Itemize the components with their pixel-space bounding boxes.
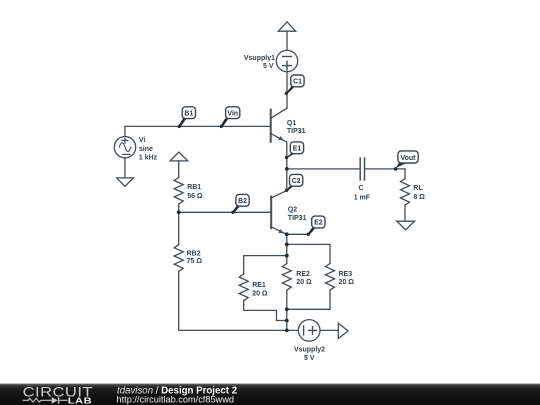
voltage source Vsupply1 [276, 50, 297, 108]
svg-text:8 Ω: 8 Ω [413, 194, 425, 201]
wire (RB2 down and right to bottom rail) [179, 271, 299, 330]
svg-text:Q2: Q2 [288, 207, 297, 214]
power flag (above Vsupply1) [278, 22, 295, 51]
node B2 wedge [231, 206, 240, 213]
node E2 [312, 216, 325, 228]
resistor RB2 [174, 245, 183, 272]
svg-text:C: C [358, 185, 363, 192]
voltage source Vsupply2 [298, 320, 338, 342]
footer text [117, 385, 238, 404]
node Vin wedge [220, 118, 229, 127]
voltage source Vi [114, 126, 135, 177]
node B2 [236, 194, 249, 206]
svg-text:C1: C1 [293, 79, 302, 86]
node E1 [290, 142, 303, 154]
transistor Q1 [271, 108, 287, 169]
svg-text:B2: B2 [238, 198, 247, 205]
footer bar [0, 384, 540, 405]
svg-text:56 Ω: 56 Ω [187, 193, 203, 200]
node C1 wedge [285, 87, 295, 95]
svg-text:LAB: LAB [68, 396, 93, 405]
node E1 wedge [285, 154, 294, 159]
transistor Q2 [271, 169, 287, 234]
power flag (right of Vsupply2) [338, 323, 348, 338]
svg-text:RB2: RB2 [187, 251, 201, 258]
node Vin [226, 107, 240, 119]
svg-text:RE3: RE3 [339, 271, 353, 278]
svg-text:Vout: Vout [400, 155, 416, 162]
wire (RB1 to junction) [178, 204, 180, 212]
node label wedges [178, 87, 408, 237]
svg-text:1 mF: 1 mF [354, 195, 371, 202]
svg-text:E1: E1 [293, 145, 302, 152]
svg-text:RE1: RE1 [252, 282, 266, 289]
svg-text:sine: sine [139, 146, 153, 153]
node E2 wedge [307, 228, 316, 235]
power flag (above RB1) [170, 152, 188, 177]
ground (below Vi) [117, 178, 134, 186]
svg-text:1 kHz: 1 kHz [139, 155, 158, 162]
node B1 wedge [178, 118, 187, 127]
svg-text:Vsupply1: Vsupply1 [244, 55, 275, 62]
node C2 [290, 174, 303, 186]
svg-text:RL: RL [413, 185, 423, 192]
resistor RE2 [282, 264, 291, 291]
CircuitLab logo [23, 385, 93, 405]
capacitor C [360, 158, 405, 180]
svg-text:C2: C2 [292, 178, 301, 185]
wire (E1 node to capacitor) [287, 168, 360, 170]
svg-text:5 V: 5 V [263, 63, 274, 70]
wire (trunk E2 junction down to RE2) [286, 234, 288, 263]
svg-text:E2: E2 [314, 220, 323, 227]
wire (RE1 bottom step to trunk) [244, 301, 287, 321]
wire (Q2 emitter to E2 anchor) [287, 233, 309, 235]
resistor RL [401, 169, 410, 221]
svg-text:Vsupply2: Vsupply2 [294, 347, 325, 354]
node Vout [398, 151, 418, 163]
resistor RE1 [239, 274, 248, 301]
junction dots [177, 167, 289, 332]
wire (branch right to RE3) [287, 244, 330, 263]
svg-text:20 Ω: 20 Ω [296, 279, 312, 286]
wire (branch left to RE1) [244, 256, 287, 274]
svg-text:20 Ω: 20 Ω [252, 290, 268, 297]
wire (top rail from Vi to Q1 base) [125, 125, 270, 127]
node C2 wedge [285, 186, 293, 191]
wire (junction down to RB2) [178, 212, 180, 244]
svg-text:Q1: Q1 [287, 120, 296, 127]
wire (junction to Q2 base) [179, 211, 271, 213]
svg-text:TIP31: TIP31 [288, 215, 307, 222]
ground (below RL) [397, 221, 415, 230]
svg-text:RE2: RE2 [296, 271, 310, 278]
wire (RE2 bottom trunk) [286, 290, 288, 330]
resistor RE3 [326, 264, 335, 291]
svg-text:20 Ω: 20 Ω [339, 279, 355, 286]
svg-text:TIP31: TIP31 [287, 128, 306, 135]
svg-text:5 V: 5 V [304, 355, 315, 362]
svg-text:RB1: RB1 [187, 184, 201, 191]
svg-text:Vin: Vin [227, 110, 238, 117]
node C1 [291, 75, 304, 87]
wire (RE3 bottom to trunk) [287, 290, 330, 309]
svg-text:Vi: Vi [139, 137, 146, 144]
resistor RB1 [174, 177, 183, 204]
svg-text:http://circuitlab.com/cf85wwd: http://circuitlab.com/cf85wwd [117, 395, 234, 405]
node B1 [182, 107, 195, 119]
svg-text:B1: B1 [184, 110, 193, 117]
svg-text:75 Ω: 75 Ω [187, 258, 203, 265]
node Vout wedge [394, 163, 407, 171]
node label boxes [182, 75, 418, 228]
